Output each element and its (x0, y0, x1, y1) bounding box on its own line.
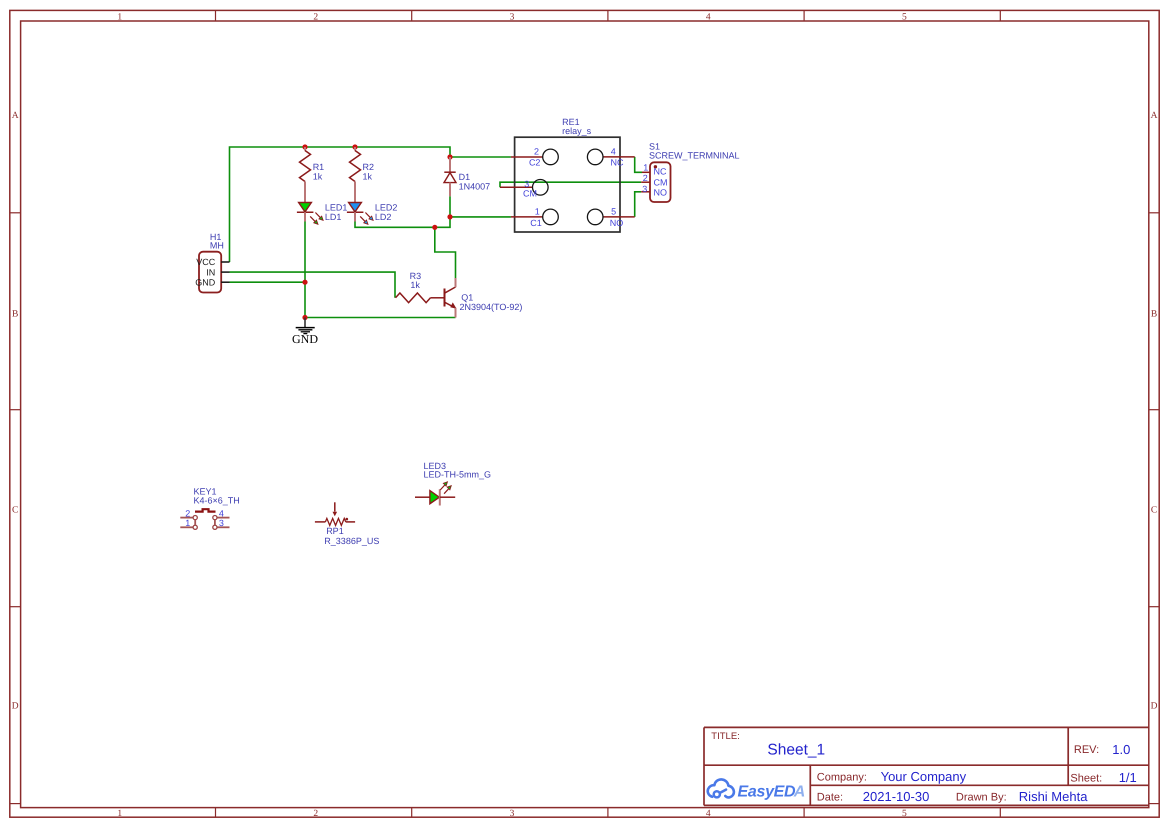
svg-text:NO: NO (610, 218, 624, 228)
svg-text:K4-6×6_TH: K4-6×6_TH (194, 495, 240, 505)
junction node collector (432, 225, 437, 230)
svg-text:1: 1 (117, 809, 122, 819)
junction node R2 top (352, 144, 357, 149)
svg-text:VCC: VCC (196, 257, 216, 267)
svg-text:5: 5 (611, 206, 616, 216)
wire D1 bottom segment (450, 196, 511, 217)
relay RE1 (500, 117, 635, 232)
svg-text:3: 3 (642, 184, 647, 194)
svg-text:relay_s: relay_s (562, 126, 592, 136)
svg-text:NO: NO (654, 188, 668, 198)
svg-text:1: 1 (117, 12, 122, 22)
resistor R2 (350, 147, 375, 202)
svg-text:1: 1 (535, 206, 540, 216)
wire bottom emitter to gnd (305, 317, 456, 319)
svg-text:LED2: LED2 (375, 203, 398, 213)
ground (292, 318, 318, 347)
diode D1 (444, 157, 490, 196)
svg-text:3: 3 (219, 518, 224, 528)
screw terminal S1 (641, 142, 739, 203)
ruler ticks bottom (216, 808, 1001, 818)
svg-text:Rishi Mehta: Rishi Mehta (1019, 789, 1088, 804)
junction node GND pin (302, 280, 307, 285)
ruler numbers bottom (117, 809, 907, 819)
EasyEDA logo (708, 779, 806, 800)
svg-text:LED1: LED1 (325, 203, 348, 213)
svg-text:NC: NC (654, 167, 667, 177)
svg-text:A: A (1151, 111, 1158, 121)
wire relay NO to S1 pin3 (635, 192, 642, 217)
svg-text:A: A (793, 783, 806, 800)
svg-text:3: 3 (510, 12, 515, 22)
svg-text:4: 4 (706, 12, 711, 22)
svg-text:CM: CM (654, 178, 668, 188)
svg-text:TITLE:: TITLE: (711, 731, 740, 742)
svg-text:4: 4 (706, 809, 711, 819)
svg-text:2: 2 (313, 12, 318, 22)
svg-text:B: B (12, 309, 18, 319)
svg-text:LD1: LD1 (325, 212, 342, 222)
svg-text:Drawn By:: Drawn By: (956, 791, 1007, 803)
potentiometer RP1 (315, 502, 379, 546)
svg-text:3: 3 (510, 809, 515, 819)
svg-text:EasyED: EasyED (738, 783, 797, 800)
LED LED1 (297, 203, 348, 225)
svg-text:1: 1 (185, 518, 190, 528)
wire Q1 collector riser (435, 227, 456, 278)
svg-text:1: 1 (643, 162, 648, 172)
svg-text:C: C (12, 505, 18, 515)
svg-text:GND: GND (292, 332, 318, 346)
svg-text:C1: C1 (530, 218, 542, 228)
wire LED2 cathode to D1 bottom (355, 217, 450, 227)
wire relay CM to S1 pin2 (500, 182, 641, 187)
wire VCC rail top (230, 147, 451, 262)
svg-text:LED-TH-5mm_G: LED-TH-5mm_G (424, 469, 492, 479)
svg-text:1k: 1k (313, 171, 323, 181)
wire D1 top to relay C2 (450, 156, 511, 158)
svg-text:2N3904(TO-92): 2N3904(TO-92) (460, 302, 523, 312)
svg-text:SCREW_TERMNINAL: SCREW_TERMNINAL (649, 151, 740, 161)
svg-text:2: 2 (534, 147, 539, 157)
svg-text:R_3386P_US: R_3386P_US (324, 536, 379, 546)
wire relay NC to S1 pin1 (635, 157, 642, 172)
resistor R3 (396, 271, 431, 303)
junction node D1 bottom (447, 214, 452, 219)
wire GND pin to node (230, 281, 306, 283)
ruler letters left (12, 111, 19, 712)
svg-text:5: 5 (902, 809, 907, 819)
svg-text:1.0: 1.0 (1112, 742, 1130, 757)
ruler numbers top (117, 12, 907, 22)
resistor R1 (300, 147, 325, 202)
svg-text:GND: GND (195, 277, 216, 287)
svg-text:Sheet_1: Sheet_1 (767, 741, 825, 758)
TITLE BLOCK (704, 727, 1149, 805)
LED LED2 (347, 203, 398, 225)
svg-text:2: 2 (313, 809, 318, 819)
svg-text:Sheet:: Sheet: (1070, 773, 1102, 785)
svg-text:MH: MH (210, 241, 224, 251)
svg-text:IN: IN (206, 267, 215, 277)
svg-text:RP1: RP1 (326, 526, 344, 536)
LED LED3 (415, 461, 491, 506)
junction node GND net (302, 315, 307, 320)
svg-text:C2: C2 (529, 157, 541, 167)
wire IN to R3 (230, 272, 396, 298)
svg-text:2: 2 (643, 173, 648, 183)
svg-text:1k: 1k (410, 280, 420, 290)
wire LED1 cathode down (304, 222, 306, 318)
svg-text:4: 4 (611, 147, 616, 157)
svg-text:D1: D1 (459, 172, 471, 182)
title block texts (711, 731, 1136, 804)
svg-text:A: A (12, 111, 19, 121)
svg-text:Your Company: Your Company (881, 769, 967, 784)
svg-text:1N4007: 1N4007 (459, 182, 491, 192)
ruler letters right (1151, 111, 1158, 712)
svg-text:D: D (12, 701, 19, 711)
junction node D1 top (447, 154, 452, 159)
svg-text:C: C (1151, 505, 1157, 515)
header H1 (195, 232, 229, 293)
ruler ticks right (1149, 213, 1159, 804)
svg-text:Company:: Company: (817, 772, 867, 784)
svg-text:CM: CM (523, 188, 537, 198)
svg-text:D: D (1151, 701, 1158, 711)
svg-text:5: 5 (902, 12, 907, 22)
svg-text:1k: 1k (363, 171, 373, 181)
svg-text:LD2: LD2 (375, 212, 392, 222)
svg-text:2021-10-30: 2021-10-30 (863, 789, 930, 804)
svg-text:Date:: Date: (817, 791, 843, 803)
pushbutton KEY1 (180, 487, 239, 530)
ruler ticks left (10, 213, 21, 804)
svg-text:B: B (1151, 309, 1157, 319)
svg-text:1/1: 1/1 (1119, 770, 1137, 785)
svg-text:NC: NC (611, 157, 624, 167)
svg-text:REV:: REV: (1074, 744, 1099, 756)
junction node R1 top (302, 144, 307, 149)
transistor Q1 (431, 278, 523, 318)
ruler ticks top (216, 10, 1001, 21)
